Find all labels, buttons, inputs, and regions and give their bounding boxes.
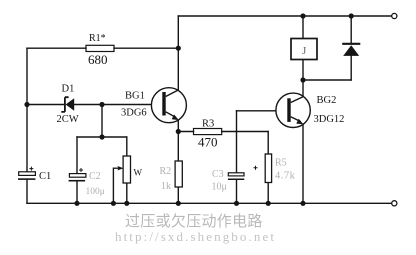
wire collector rail up: [177, 16, 179, 48]
svg-text:R3: R3: [202, 119, 214, 130]
svg-text:100μ: 100μ: [86, 187, 105, 197]
wire R5 top lead: [267, 132, 269, 155]
junction bottom R5: [266, 201, 271, 206]
svg-text:470: 470: [198, 134, 218, 149]
wire C3 top lead: [236, 111, 238, 173]
wire D1 row left: [27, 104, 65, 106]
zener diode D1: [61, 97, 74, 112]
wire bottom rail: [27, 202, 392, 204]
svg-text:C1: C1: [39, 171, 51, 182]
relay J: [291, 39, 317, 60]
wire W wiper lead: [112, 168, 114, 203]
junction top rail / relay: [300, 13, 305, 18]
transistor BG2: [276, 93, 310, 127]
svg-text:BG1: BG1: [125, 90, 145, 101]
wire node A horizontal: [77, 136, 127, 138]
svg-text:R1*: R1*: [89, 33, 106, 44]
wire R1 row left: [27, 47, 86, 49]
capacitor C3: [228, 166, 258, 180]
junction node A: [99, 134, 104, 139]
svg-text:1k: 1k: [161, 181, 171, 192]
wire C2 top lead: [76, 137, 78, 174]
wire relay J bottom lead: [302, 60, 304, 81]
capacitor C1: [18, 167, 35, 180]
svg-text:BG2: BG2: [317, 95, 337, 106]
svg-text:680: 680: [88, 52, 108, 67]
wire C2 bottom lead: [76, 181, 78, 204]
transistor BG1: [151, 88, 186, 123]
junction bottom C2: [74, 201, 79, 206]
junction bottom W: [124, 201, 129, 206]
svg-text:C3: C3: [212, 169, 224, 180]
resistor R2: [175, 161, 182, 187]
diode (flyback across relay): [342, 44, 360, 56]
svg-text:4.7k: 4.7k: [275, 171, 296, 182]
junction bottom emitter: [300, 201, 305, 206]
wire R3 row left: [178, 131, 193, 133]
junction left rail / D1: [24, 102, 29, 107]
wire BG1 emitter: [177, 120, 179, 131]
svg-text:R2: R2: [160, 166, 172, 177]
svg-text:http://sxd.shengbo.net: http://sxd.shengbo.net: [115, 229, 276, 244]
junction top rail / diode: [349, 13, 354, 18]
capacitor C2: [69, 168, 86, 182]
wire R3 row right: [222, 131, 269, 133]
wire W top lead: [126, 137, 128, 156]
wire diode top lead: [350, 16, 352, 44]
wire left rail top (corner to D1 node): [26, 48, 28, 104]
wire BG2 collector: [302, 80, 304, 97]
wire R5 bottom lead: [267, 183, 269, 204]
svg-text:C2: C2: [89, 171, 101, 182]
junction bottom R2: [176, 201, 181, 206]
potentiometer W: [113, 156, 130, 183]
svg-text:W: W: [134, 168, 143, 178]
svg-text:10μ: 10μ: [212, 181, 227, 192]
svg-text:J: J: [302, 45, 307, 57]
wire node A vertical: [101, 105, 103, 138]
svg-text:过压或欠压动作电路: 过压或欠压动作电路: [125, 213, 263, 230]
wire BG1 collector: [177, 48, 179, 90]
junction R1 / collector: [176, 46, 181, 51]
wire R2 bottom lead: [177, 187, 179, 203]
wire BG2 emitter: [302, 124, 304, 203]
wire top rail: [178, 15, 392, 17]
wire R2 top lead: [177, 132, 179, 162]
svg-text:2CW: 2CW: [57, 114, 79, 125]
wire left rail bottom (C1 to bottom rail): [26, 180, 28, 204]
wire W bottom lead: [126, 183, 128, 203]
svg-text:R5: R5: [275, 158, 287, 169]
wire node B horizontal: [303, 79, 351, 81]
wire BG2 base row: [237, 110, 288, 112]
resistor R3: [194, 129, 222, 135]
junction node B: [300, 77, 305, 82]
terminal bottom right: [392, 201, 397, 206]
svg-text:3DG6: 3DG6: [121, 107, 147, 118]
junction D1 / base node: [99, 102, 104, 107]
wire diode bottom lead: [350, 56, 352, 80]
resistor R5: [265, 154, 271, 183]
junction bottom wiper: [111, 201, 116, 206]
wire C3 bottom lead: [236, 180, 238, 204]
wire relay J top lead: [302, 16, 304, 39]
resistor R1: [86, 45, 114, 51]
wire R1 row right: [114, 47, 178, 49]
svg-text:3DG12: 3DG12: [314, 114, 345, 125]
junction bottom C3: [234, 201, 239, 206]
wire left rail middle (D1 node to C1): [26, 105, 28, 172]
svg-text:D1: D1: [62, 84, 75, 95]
wire D1 row right: [74, 104, 162, 106]
junction emitter / R3 / R2: [176, 129, 181, 134]
terminal top right: [392, 13, 397, 18]
